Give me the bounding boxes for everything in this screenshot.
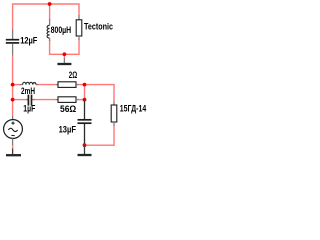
junction dot block bottom xyxy=(63,52,67,56)
resistor speaker 15GD-14 xyxy=(111,102,117,126)
wire 800uH branch bottom xyxy=(49,40,51,54)
junction dot row A left xyxy=(11,83,15,87)
wire AC source to ground xyxy=(12,145,14,149)
svg-text:2Ω: 2Ω xyxy=(69,70,78,80)
junction dot bottom xyxy=(83,143,87,147)
wire junction connector rowA-rowB xyxy=(84,85,86,100)
ground bottom center xyxy=(78,146,92,155)
wire left rail middle xyxy=(12,55,14,116)
wire top rail xyxy=(13,4,79,30)
wire row B right xyxy=(78,99,86,101)
capacitor C3 13uF xyxy=(78,100,92,143)
wire parallel block bottom rail xyxy=(49,53,80,55)
wire row B left xyxy=(13,99,27,101)
wire bottom rail xyxy=(84,144,115,146)
capacitor C1 12uF xyxy=(6,30,19,56)
wire row A middle xyxy=(38,84,57,86)
wire ground stub under block xyxy=(63,54,65,58)
svg-text:Tectonic: Tectonic xyxy=(84,22,113,32)
svg-text:56Ω: 56Ω xyxy=(60,104,77,114)
junction dot row A right xyxy=(83,83,87,87)
svg-text:2mH: 2mH xyxy=(21,86,35,96)
junction dot row B right xyxy=(83,98,87,102)
svg-text:15ГД-14: 15ГД-14 xyxy=(120,104,147,114)
capacitor C2 1uF xyxy=(26,95,35,106)
resistor R1 2ohm xyxy=(56,82,79,88)
AC source V1 xyxy=(4,116,23,145)
junction dot top xyxy=(48,2,52,6)
ground bottom left xyxy=(6,149,21,156)
wire 800uH branch top xyxy=(49,4,51,21)
junction dot row B left xyxy=(11,98,15,102)
inductor L1 800uH xyxy=(47,19,50,41)
wire speaker branch bottom xyxy=(113,125,115,146)
resistor R2 56ohm xyxy=(56,97,79,103)
wire row B middle xyxy=(34,99,57,101)
wire row A right xyxy=(78,85,115,103)
svg-text:800µH: 800µH xyxy=(51,25,72,35)
svg-text:13µF: 13µF xyxy=(59,124,77,134)
svg-text:1µF: 1µF xyxy=(23,104,35,114)
svg-text:12µF: 12µF xyxy=(20,35,37,45)
inductor L2 2mH xyxy=(20,82,39,84)
resistor Tectonic tweeter xyxy=(76,15,82,40)
ground under block xyxy=(57,58,71,64)
wire tectonic branch bottom xyxy=(78,39,80,54)
wire row A left xyxy=(13,84,20,86)
